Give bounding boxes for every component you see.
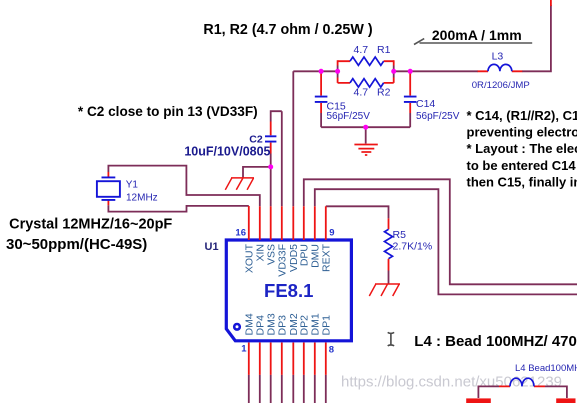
svg-text:16: 16 <box>235 228 246 239</box>
wire: rail right of L3 to corner up <box>522 5 551 71</box>
resistor R5 <box>385 218 433 284</box>
svg-text:1: 1 <box>241 343 247 354</box>
power bar left <box>466 398 491 403</box>
wire: crystal bottom to XOUT <box>108 205 248 211</box>
svg-text:12MHz: 12MHz <box>126 193 158 204</box>
chip U1 bottom pin names DM4,DP4,DM3,DP3,DM2,DP2,DM1,DP1 <box>244 313 333 335</box>
pin: red tip top right <box>550 0 552 6</box>
svg-text:30~50ppm/(HC-49S): 30~50ppm/(HC-49S) <box>6 236 147 253</box>
svg-text:L4 : Bead 100MHZ/ 470ohm: L4 : Bead 100MHZ/ 470ohm <box>414 333 577 350</box>
power bar right <box>556 398 575 403</box>
svg-text:Crystal 12MHZ/16~20pF: Crystal 12MHZ/16~20pF <box>9 217 172 233</box>
svg-text:REXT: REXT <box>321 243 333 272</box>
svg-text:R1: R1 <box>377 44 391 56</box>
capacitor C2 <box>184 111 281 167</box>
pin stubs L4 <box>499 385 545 387</box>
svg-text:8: 8 <box>329 344 334 355</box>
mouse text cursor I-beam <box>388 332 394 346</box>
svg-text:4.7: 4.7 <box>354 44 369 56</box>
wire: gnd-hatch stub <box>243 167 271 178</box>
resistor R1 <box>338 44 394 66</box>
svg-text:DP1: DP1 <box>321 315 333 336</box>
svg-text:R1, R2 (4.7 ohm / 0.25W ): R1, R2 (4.7 ohm / 0.25W ) <box>203 22 372 38</box>
chip U1 FE8.1 <box>205 240 352 341</box>
resistor box right vertical <box>393 66 395 78</box>
svg-text:0R/1206/JMP: 0R/1206/JMP <box>472 80 530 91</box>
wire: REXT to R5 <box>326 206 389 218</box>
svg-text:C14: C14 <box>416 98 435 110</box>
chip U1 top pins 16..9 (red) <box>249 206 326 240</box>
leader line under 200mA/1mm <box>414 39 532 45</box>
svg-text:preventing electromagn: preventing electromagn <box>467 125 577 140</box>
wire: bottom cap bus <box>321 126 410 128</box>
wire: L4 left <box>478 386 499 398</box>
wire: main rail y=71.3 (left segment to resistor box) <box>293 70 337 72</box>
svg-text:then C15, finally into th: then C15, finally into th <box>467 174 577 189</box>
ground (earth hatch) near C2 <box>225 178 254 190</box>
chip U1 top pin names XOUT,XIN,VSS,VD33F,VDD5,DPU,DMU,REXT <box>244 243 333 276</box>
svg-text:200mA / 1mm: 200mA / 1mm <box>432 27 522 43</box>
svg-text:4.7: 4.7 <box>354 87 369 99</box>
svg-text:56pF/25V: 56pF/25V <box>327 111 371 122</box>
wire: main rail y=71.3 (resistor box to L3) <box>394 70 478 72</box>
ground (earth hatch) under R5 <box>369 284 400 296</box>
ground (bar style) under C15/C14 <box>354 145 377 156</box>
wire: VSS drop from C2 junction <box>270 167 272 206</box>
inductor L3 <box>472 50 530 90</box>
wire: VD33F drop <box>281 111 283 206</box>
svg-text:2.7K/1%: 2.7K/1% <box>393 241 433 253</box>
svg-text:L4 Bead100MHZ/470: L4 Bead100MHZ/470 <box>515 363 577 374</box>
svg-text:L3: L3 <box>492 50 504 62</box>
resistor box left vertical <box>337 66 339 78</box>
svg-text:FE8.1: FE8.1 <box>264 280 313 301</box>
capacitor C14 <box>404 71 460 127</box>
svg-text:to be entered C14 first,: to be entered C14 first, <box>467 158 577 173</box>
inductor L4 sub-circuit <box>466 363 577 403</box>
svg-text:Y1: Y1 <box>126 180 139 191</box>
svg-text:VD33F: VD33F <box>277 244 289 277</box>
svg-text:DP3: DP3 <box>277 315 289 336</box>
crystal Y1 <box>97 172 158 205</box>
svg-text:R2: R2 <box>377 87 391 99</box>
wire: crystal top to XIN <box>108 166 259 207</box>
inductor L4 arcs <box>510 378 534 386</box>
pin-1 indicator ring <box>234 324 240 330</box>
svg-text:9: 9 <box>329 227 334 238</box>
svg-text:* C2 close to pin 13 (VD33F): * C2 close to pin 13 (VD33F) <box>78 104 258 119</box>
wire: VDD5 drop from rail <box>292 71 294 206</box>
chip U1 bottom pins 1..8 (red) <box>249 343 326 375</box>
wire: gnd stub <box>365 127 367 143</box>
svg-text:56pF/25V: 56pF/25V <box>416 111 460 122</box>
svg-text:https://blog.csdn.net/xu506212: https://blog.csdn.net/xu50621239 <box>341 374 562 391</box>
svg-text:* C14, (R1//R2), C15 are: * C14, (R1//R2), C15 are <box>467 108 577 123</box>
svg-text:U1: U1 <box>205 241 219 253</box>
svg-text:* Layout : The electroly: * Layout : The electroly <box>467 141 577 156</box>
wire: L4 right <box>545 386 567 398</box>
wire: DMU long route <box>315 189 577 294</box>
resistor R2 <box>338 79 394 99</box>
svg-text:10uF/10V/0805: 10uF/10V/0805 <box>184 144 270 158</box>
wire: DPU long route <box>304 179 577 284</box>
node: junction dots <box>268 69 413 170</box>
capacitor C15 <box>315 71 370 127</box>
svg-text:R5: R5 <box>393 229 407 241</box>
